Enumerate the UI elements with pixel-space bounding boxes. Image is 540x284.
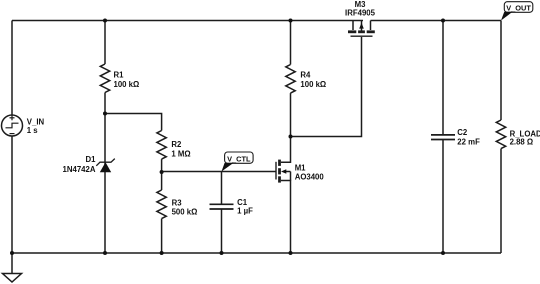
svg-text:M1: M1 — [295, 164, 306, 173]
wire left column (V_IN) — [11, 21, 13, 254]
label R2 value — [171, 140, 190, 158]
capacitor C2 — [431, 21, 455, 254]
label V_IN value — [27, 117, 45, 134]
transistor M3 (PMOS IRF4905) — [348, 21, 375, 37]
resistor R4 — [286, 21, 295, 137]
svg-text:2.88 Ω: 2.88 Ω — [510, 138, 534, 147]
wire D1 column — [104, 114, 106, 254]
svg-text:100 kΩ: 100 kΩ — [300, 80, 326, 89]
svg-text:R2: R2 — [171, 140, 182, 149]
junction R1 bottom node — [103, 112, 107, 116]
ground — [3, 253, 22, 282]
svg-text:R4: R4 — [300, 71, 311, 80]
wire bottom rail — [12, 252, 501, 254]
label M3 value — [345, 0, 376, 18]
label R_LOAD value — [510, 129, 540, 146]
resistor R2 — [157, 130, 166, 172]
resistor R3 — [157, 172, 166, 253]
junction bottom rail V_IN — [10, 251, 14, 255]
wire top rail right (M3 drain to V_OUT corner) — [371, 20, 502, 22]
label M1 value — [295, 164, 325, 182]
svg-text:100 kΩ: 100 kΩ — [114, 80, 140, 89]
svg-text:D1: D1 — [86, 155, 97, 164]
junction bottom rail R3 — [160, 251, 164, 255]
svg-text:IRF4905: IRF4905 — [345, 9, 376, 18]
svg-text:V_CTL: V_CTL — [227, 154, 251, 163]
svg-text:AO3400: AO3400 — [295, 173, 325, 182]
label R1 value — [114, 71, 140, 89]
node V_CTL flag — [222, 152, 254, 172]
wire top rail left (V_IN to M3 source) — [12, 20, 363, 22]
svg-text:V_OUT: V_OUT — [506, 3, 531, 12]
junction bottom rail C2 — [441, 251, 445, 255]
wire V_CTL net (mid junction to M1 gate) — [162, 171, 276, 173]
junction top rail R4 — [289, 19, 293, 23]
svg-text:500 kΩ: 500 kΩ — [172, 208, 198, 217]
junction bottom rail M1 source — [289, 251, 293, 255]
junction top rail R1 — [103, 19, 107, 23]
voltage source V_IN — [2, 115, 23, 136]
label V_CTL text — [227, 154, 251, 163]
svg-text:22 mF: 22 mF — [457, 138, 480, 147]
capacitor C1 — [210, 172, 234, 254]
svg-text:C2: C2 — [457, 128, 468, 137]
svg-text:R1: R1 — [114, 71, 125, 80]
svg-text:1 s: 1 s — [27, 126, 39, 135]
label R4 value — [300, 71, 326, 89]
transistor M1 (NMOS AO3400) — [276, 137, 291, 254]
label C2 value — [457, 128, 480, 147]
svg-text:1 MΩ: 1 MΩ — [171, 150, 190, 159]
svg-text:1N4742A: 1N4742A — [63, 165, 96, 174]
wire R1 junction to R2 top — [105, 114, 162, 131]
resistor R1 — [100, 21, 109, 114]
junction bottom rail D1 — [103, 251, 107, 255]
junction top rail C2 — [441, 19, 445, 23]
label D1 value — [63, 155, 97, 174]
resistor R_LOAD — [496, 21, 505, 254]
label V_OUT text — [506, 3, 531, 12]
junction R2/R3 node — [160, 170, 164, 174]
node V_OUT flag — [501, 2, 533, 21]
junction bottom rail C1 — [220, 251, 224, 255]
junction R4/M1 drain node — [289, 135, 293, 139]
zener diode D1 — [96, 159, 115, 173]
label C1 value — [237, 198, 253, 215]
svg-text:1 µF: 1 µF — [237, 206, 253, 215]
label R3 value — [172, 198, 198, 216]
wire M3 gate to R4/M1 junction — [291, 37, 362, 137]
svg-text:R3: R3 — [172, 198, 183, 207]
